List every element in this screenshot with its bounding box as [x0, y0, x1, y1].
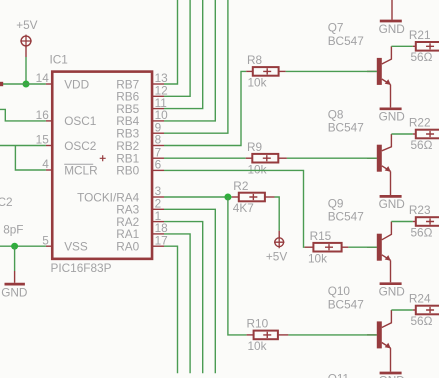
- svg-text:BC547: BC547: [328, 121, 364, 135]
- svg-text:8pF: 8pF: [3, 223, 23, 237]
- resistor R2 lead right: [265, 196, 275, 198]
- svg-text:4: 4: [42, 157, 49, 171]
- pin 13 stub: [152, 83, 164, 85]
- svg-text:GND: GND: [379, 374, 405, 378]
- transistor Q10 base pin stub: [367, 334, 377, 336]
- svg-text:MCLR: MCLR: [64, 163, 97, 177]
- svg-text:Q11: Q11: [328, 372, 349, 378]
- wire pin 2 down to bottom edge: [164, 209, 215, 373]
- supply +5V (top left): [21, 36, 31, 46]
- svg-text:R9: R9: [247, 140, 262, 154]
- svg-text:VSS: VSS: [64, 240, 88, 254]
- wire pin 3 to R2: [164, 196, 232, 198]
- resistor R9 10k: [252, 154, 278, 163]
- svg-text:56Ω: 56Ω: [411, 225, 433, 239]
- wire pin 17 down to bottom edge: [164, 246, 178, 373]
- svg-text:14: 14: [36, 71, 50, 85]
- svg-text:GND: GND: [1, 285, 27, 299]
- svg-text:R8: R8: [247, 53, 263, 67]
- ground symbol below Q8: [380, 195, 402, 198]
- resistor R24 56&#937;: [416, 306, 439, 315]
- svg-text:56Ω: 56Ω: [411, 138, 433, 152]
- svg-text:BC547: BC547: [328, 34, 364, 48]
- supply +5V pin stem (middle): [278, 231, 280, 238]
- pin 1 stub: [152, 221, 164, 223]
- svg-text:R22: R22: [409, 116, 431, 130]
- ground symbol below Q7: [380, 107, 402, 110]
- transistor Q7 base bar: [377, 58, 382, 85]
- transistor Q7 base pin stub: [367, 70, 377, 72]
- svg-text:+5V: +5V: [16, 18, 37, 32]
- transistor Q9 emitter: [382, 255, 391, 261]
- svg-text:56Ω: 56Ω: [411, 50, 433, 64]
- transistor Q8 emitter arrow: [385, 166, 391, 172]
- svg-text:10k: 10k: [248, 76, 267, 90]
- resistor R2 4k7: [239, 193, 265, 202]
- pin 5 stub: [46, 245, 52, 247]
- wire Q10 collector to R24: [391, 309, 413, 311]
- svg-text:10k: 10k: [308, 251, 327, 265]
- svg-text:IC1: IC1: [50, 53, 68, 67]
- svg-text:R23: R23: [409, 203, 431, 217]
- svg-text:10k: 10k: [248, 339, 267, 353]
- resistor R21 56&#937;: [416, 42, 439, 51]
- wire MCLR net: [15, 146, 46, 171]
- ground symbol below Q9: [380, 282, 402, 285]
- transistor Q8 base bar: [377, 145, 382, 172]
- pin 8 stub: [152, 145, 164, 147]
- resistor R10 lead right: [278, 334, 289, 336]
- svg-text:OSC2: OSC2: [64, 139, 96, 153]
- pin 14 stub: [46, 83, 52, 85]
- wire VDD net to pin 14: [3, 83, 46, 85]
- svg-text:Q10: Q10: [328, 284, 351, 298]
- resistor R23 lead: [413, 221, 416, 223]
- wire pin 8 to R8: [164, 71, 246, 145]
- ground symbol (bottom left): [5, 283, 25, 286]
- pin 2 stub: [152, 208, 164, 210]
- resistor R15 lead right: [342, 246, 349, 248]
- wire R10 to Q10 base: [288, 334, 376, 336]
- pin 7 stub: [152, 157, 164, 159]
- MCLR overline: [64, 163, 93, 165]
- svg-text:4K7: 4K7: [233, 201, 254, 215]
- pin 4 stub: [46, 169, 52, 171]
- transistor Q7 emitter: [382, 79, 391, 85]
- ground symbol below Q10: [380, 372, 402, 375]
- svg-text:BC547: BC547: [328, 210, 364, 224]
- pin 17 stub: [152, 245, 164, 247]
- off-sheet component stub at left (VDD net): [0, 82, 3, 86]
- svg-text:R24: R24: [409, 292, 431, 306]
- svg-text:16: 16: [36, 108, 50, 122]
- junction dot node RA4: [224, 194, 231, 201]
- transistor Q10 emitter: [382, 343, 391, 349]
- wire pin 18 down to bottom edge: [164, 234, 190, 373]
- ground GND pin stem (bottom left): [14, 271, 16, 283]
- resistor R9 lead right: [278, 157, 287, 159]
- transistor Q8 collector: [382, 134, 392, 151]
- wire RB7 pin 13 up to top edge: [164, 0, 178, 84]
- wire Q7 emitter to ground: [390, 85, 392, 108]
- resistor R22 lead: [413, 133, 416, 135]
- svg-text:R10: R10: [247, 317, 269, 331]
- ground symbol (top): [380, 20, 402, 23]
- resistor R2 lead left: [232, 196, 239, 198]
- pin 6 stub: [152, 169, 164, 171]
- wire RB4 pin 10 up to top edge: [164, 0, 215, 121]
- transistor Q7 emitter arrow: [385, 79, 391, 85]
- pin 18 stub: [152, 233, 164, 235]
- transistor Q9 base pin stub: [367, 246, 377, 248]
- svg-text:GND: GND: [379, 284, 405, 298]
- svg-text:56Ω: 56Ω: [411, 314, 433, 328]
- transistor Q7 collector: [382, 46, 392, 64]
- transistor Q8 base pin stub: [367, 157, 377, 159]
- svg-text:Q9: Q9: [328, 197, 344, 211]
- pin 3 stub: [152, 196, 164, 198]
- svg-text:BC547: BC547: [328, 297, 364, 311]
- wire from top edge to ground: [391, 0, 393, 20]
- wire Q9 collector to R23: [391, 221, 413, 223]
- svg-text:GND: GND: [379, 109, 405, 123]
- wire Q8 emitter to ground: [390, 171, 392, 195]
- resistor R10 lead left: [247, 334, 254, 336]
- wire Q7 collector to R21: [391, 45, 413, 47]
- svg-text:RA0: RA0: [116, 240, 139, 254]
- wire OSC2 net: [0, 145, 46, 147]
- resistor R8 lead left: [246, 70, 253, 72]
- svg-text:OSC1: OSC1: [64, 114, 96, 128]
- svg-text:+5V: +5V: [266, 250, 287, 264]
- svg-text:Q7: Q7: [328, 21, 344, 35]
- transistor Q10 emitter arrow: [385, 343, 391, 349]
- transistor Q9 emitter arrow: [385, 255, 391, 261]
- wire R9 to Q8 base: [287, 157, 377, 159]
- wire RB6 pin 12 up to top edge: [164, 0, 190, 96]
- transistor Q9 base bar: [377, 234, 382, 261]
- junction dot VSS net: [11, 243, 18, 250]
- resistor R15 lead left: [305, 246, 314, 248]
- wire Q10 emitter to ground: [390, 348, 392, 372]
- svg-text:R2: R2: [233, 179, 248, 193]
- IC origin cross: [100, 155, 106, 161]
- wire OSC1 net: [0, 109, 46, 121]
- svg-text:GND: GND: [379, 22, 405, 36]
- svg-text:10k: 10k: [248, 162, 267, 176]
- svg-text:5: 5: [42, 233, 49, 247]
- pin 11 stub: [152, 108, 164, 110]
- svg-text:R21: R21: [409, 28, 431, 42]
- wire RB3 pin 9 up to top edge: [164, 0, 228, 133]
- resistor R8 lead right: [279, 70, 286, 72]
- resistor R23 56&#937;: [416, 217, 439, 226]
- transistor Q10 collector: [382, 310, 392, 328]
- wire R8 to Q7 base: [286, 70, 377, 72]
- pin 12 stub: [152, 95, 164, 97]
- transistor Q10 base bar: [377, 321, 382, 348]
- wire pin 6 down to R15: [164, 170, 305, 247]
- wire VSS net: [0, 245, 46, 247]
- resistor R10 10k: [254, 331, 278, 340]
- resistor R15 10k: [313, 243, 341, 252]
- svg-text:6: 6: [155, 158, 162, 172]
- wire VSS to ground: [14, 246, 16, 271]
- svg-text:VDD: VDD: [64, 77, 89, 91]
- wire R2 to +5V: [275, 197, 280, 231]
- wire junction down to R10: [228, 197, 247, 335]
- transistor Q9 collector: [382, 222, 392, 240]
- resistor R21 lead: [413, 45, 416, 47]
- resistor R8 10k: [253, 67, 279, 76]
- resistor R22 56&#937;: [416, 130, 439, 139]
- wire Q8 collector to R22: [391, 133, 413, 135]
- wire R15 to Q9 base: [348, 246, 376, 248]
- svg-text:C2: C2: [0, 195, 13, 209]
- wire +5V to VDD net: [25, 57, 27, 84]
- wire Q9 emitter to ground: [390, 260, 392, 282]
- resistor R24 lead: [413, 309, 416, 311]
- svg-text:PIC16F83P: PIC16F83P: [51, 261, 112, 275]
- pin 15 stub: [46, 145, 52, 147]
- wire pin 1 down to bottom edge: [164, 222, 203, 374]
- wire pin 7 to R9: [164, 157, 246, 159]
- resistor R9 lead left: [246, 157, 253, 159]
- pin 16 stub: [46, 120, 52, 122]
- junction dot on VDD net: [23, 81, 30, 88]
- pin 9 stub: [152, 132, 164, 134]
- supply +5V (middle): [275, 238, 284, 247]
- transistor Q8 emitter: [382, 166, 391, 172]
- wire RB5 pin 11 up to top edge: [164, 0, 203, 109]
- IC U1 body PIC16F83P: [52, 72, 152, 259]
- svg-text:R15: R15: [310, 229, 332, 243]
- pin 10 stub: [152, 120, 164, 122]
- svg-text:Q8: Q8: [328, 108, 344, 122]
- svg-text:RB0: RB0: [116, 164, 139, 178]
- svg-text:17: 17: [155, 233, 168, 247]
- svg-text:15: 15: [36, 133, 50, 147]
- svg-text:GND: GND: [379, 197, 405, 211]
